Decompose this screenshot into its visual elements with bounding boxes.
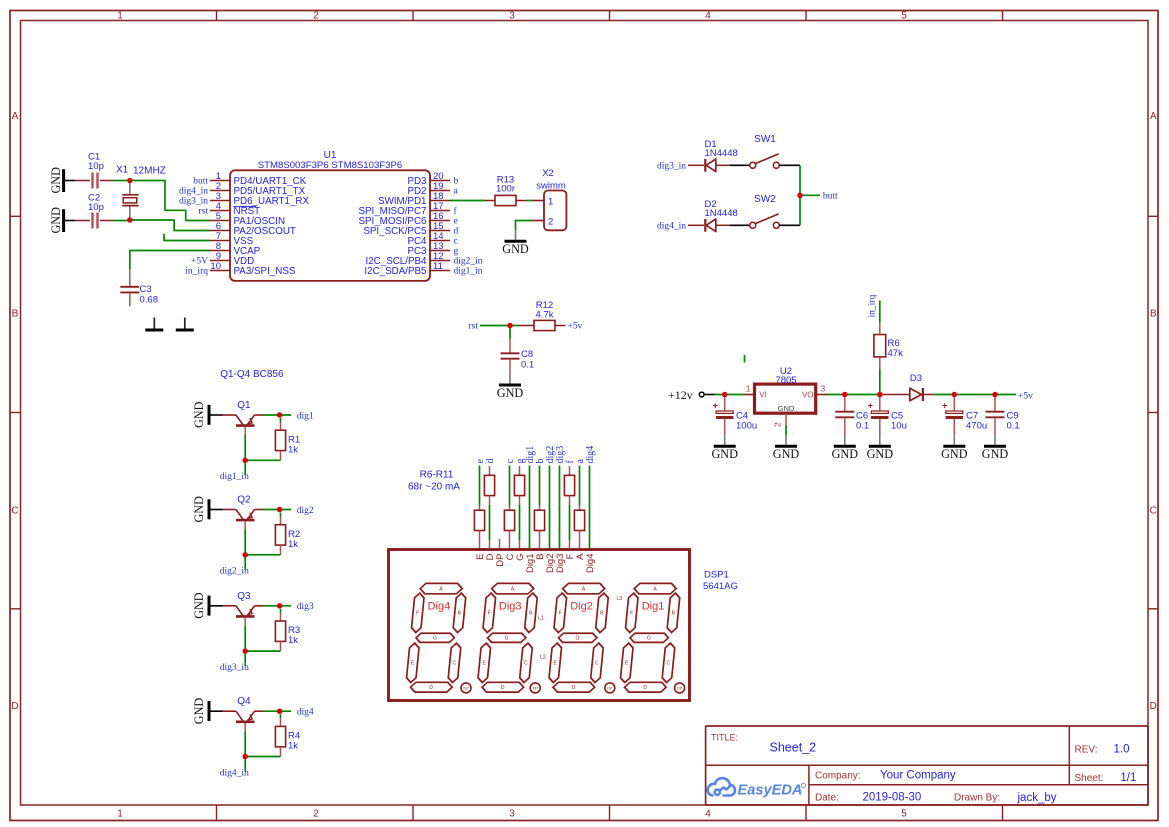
wire VO to junctions — [828, 394, 880, 396]
svg-text:DP: DP — [607, 687, 613, 691]
svg-text:dig2: dig2 — [297, 506, 314, 516]
svg-text:L2: L2 — [540, 655, 546, 661]
junction dig1_in node — [243, 458, 248, 463]
pin stub — [479, 540, 481, 551]
svg-text:G: G — [433, 636, 437, 642]
svg-text:470u: 470u — [966, 420, 987, 431]
ground symbol left floating — [145, 318, 163, 331]
diode D1 1N4448 — [688, 139, 738, 172]
wire +12v to junction — [704, 394, 714, 396]
svg-text:X1: X1 — [116, 165, 129, 176]
ground GND at Q4 — [192, 698, 222, 725]
svg-text:+5v: +5v — [568, 321, 583, 331]
svg-text:Drawn By:: Drawn By: — [954, 792, 1000, 803]
junction dig3 node — [277, 603, 282, 608]
svg-text:dig4_in: dig4_in — [657, 222, 686, 232]
svg-text:GND: GND — [773, 447, 800, 461]
svg-text:5: 5 — [901, 809, 907, 820]
svg-text:3: 3 — [509, 11, 515, 22]
svg-text:rst: rst — [199, 206, 209, 216]
svg-text:dig3_in: dig3_in — [179, 196, 208, 206]
svg-text:g: g — [454, 246, 459, 256]
junction dig4_in node — [243, 754, 248, 759]
svg-text:C: C — [595, 660, 599, 666]
svg-text:DP: DP — [533, 687, 539, 691]
junction X1 top — [127, 178, 132, 183]
svg-text:100u: 100u — [736, 420, 757, 431]
junction C9 node — [992, 392, 997, 397]
wire collector to node — [263, 509, 291, 511]
wire X2 pin2 to ground — [516, 221, 533, 231]
wire C2 to X1 — [114, 220, 130, 222]
svg-text:1: 1 — [746, 383, 751, 393]
svg-text:C: C — [667, 660, 671, 666]
svg-text:L3: L3 — [617, 596, 623, 602]
resistor c segment 68r — [504, 506, 514, 541]
svg-text:dig3: dig3 — [297, 602, 314, 612]
junction C4 node — [722, 392, 727, 397]
wire collector to node — [263, 710, 291, 712]
capacitor C7 — [942, 397, 987, 436]
svg-text:GND: GND — [778, 404, 795, 413]
resistor d segment 68r — [484, 466, 494, 505]
svg-text:dig3_in: dig3_in — [657, 162, 686, 172]
resistor R1 1k — [275, 418, 300, 460]
svg-text:rst: rst — [469, 321, 479, 331]
svg-text:GND: GND — [497, 386, 524, 400]
svg-text:dig1_in: dig1_in — [220, 472, 249, 482]
svg-text:dig4: dig4 — [585, 446, 596, 464]
wire node down — [244, 555, 246, 570]
svg-text:F: F — [488, 610, 491, 616]
crystal X1 12MHZ — [116, 165, 166, 218]
svg-text:5641AG: 5641AG — [703, 581, 738, 592]
wire D3 to +5v — [934, 394, 1016, 396]
wire C1 to X1 — [114, 180, 130, 182]
svg-text:2019-08-30: 2019-08-30 — [863, 791, 922, 803]
svg-text:4: 4 — [705, 809, 711, 820]
wire node to resistor bottom — [245, 554, 280, 556]
svg-text:2: 2 — [313, 11, 319, 22]
ground under C6 — [832, 435, 859, 461]
digit Dig2 segments — [548, 583, 610, 692]
svg-text:B: B — [12, 309, 19, 320]
transistor Q2 — [223, 495, 264, 530]
wire collector to node — [263, 414, 291, 416]
svg-text:0.1: 0.1 — [521, 359, 534, 370]
svg-text:GND: GND — [832, 447, 859, 461]
resistor a segment 68r — [574, 506, 584, 541]
Company field — [815, 769, 956, 781]
wire base to node — [244, 731, 246, 756]
pin stub — [579, 540, 581, 551]
svg-text:REV:: REV: — [1075, 744, 1098, 755]
svg-text:0.1: 0.1 — [1007, 420, 1020, 431]
resistor R6 47k — [874, 323, 903, 395]
wire U2 pin2 to ground — [785, 413, 787, 425]
ground GND at Q1 — [192, 401, 222, 428]
Sheet field — [1075, 772, 1137, 784]
digit Dig1 segments — [619, 583, 681, 692]
svg-text:SW2: SW2 — [754, 194, 776, 205]
IC U1 STM8S003F3P6 — [210, 150, 450, 281]
svg-text:SW1: SW1 — [754, 134, 776, 145]
svg-text:in_irq: in_irq — [868, 295, 878, 318]
wire base to node — [244, 626, 246, 651]
digit Dig3 segments — [477, 583, 539, 692]
capacitor C4 — [713, 397, 758, 436]
svg-text:Dig4: Dig4 — [585, 554, 596, 574]
svg-text:jack_by: jack_by — [1017, 792, 1057, 804]
svg-text:GND: GND — [192, 401, 206, 428]
ground under C9 — [982, 435, 1009, 461]
svg-text:0.1: 0.1 — [856, 420, 869, 431]
wire collector to node — [263, 605, 291, 607]
pin stub DP — [499, 539, 501, 551]
svg-text:Your Company: Your Company — [880, 769, 956, 781]
svg-text:3: 3 — [821, 383, 826, 393]
ground GND at Q2 — [192, 496, 222, 523]
svg-text:Sheet_2: Sheet_2 — [770, 741, 817, 755]
svg-text:1.0: 1.0 — [1114, 743, 1130, 755]
wire switch to butt node — [779, 164, 800, 166]
REV field — [1075, 743, 1130, 755]
svg-text:D: D — [643, 685, 647, 691]
svg-text:in_irq: in_irq — [185, 266, 208, 276]
resistor R2 1k — [275, 513, 300, 555]
resistor b segment 68r — [534, 506, 544, 541]
svg-text:GND: GND — [711, 447, 738, 461]
wire to U2 — [715, 394, 745, 396]
capacitor C9 — [986, 397, 1020, 436]
svg-text:GND: GND — [49, 167, 63, 194]
svg-text:X2: X2 — [542, 168, 554, 179]
wire segment column — [589, 466, 591, 551]
svg-text:C: C — [1150, 506, 1157, 517]
transistor Q4 — [223, 696, 264, 731]
connector X2 swimm — [532, 168, 566, 230]
svg-text:C8: C8 — [521, 349, 533, 360]
ground under C8 — [497, 374, 524, 400]
resistor e segment 68r — [474, 506, 484, 541]
svg-text:GND: GND — [867, 447, 894, 461]
svg-text:D: D — [501, 685, 505, 691]
resistor g segment 68r — [514, 466, 524, 505]
svg-text:GND: GND — [192, 496, 206, 523]
wire X1 top to U1 pin5 — [130, 181, 210, 221]
svg-text:GND: GND — [502, 242, 529, 256]
ground under X2 — [502, 230, 529, 256]
svg-text:dig2_in: dig2_in — [220, 567, 249, 577]
svg-text:dig1: dig1 — [297, 411, 314, 421]
svg-text:swimm: swimm — [536, 181, 566, 192]
svg-text:dig2_in: dig2_in — [454, 256, 483, 266]
wire diode to switch — [730, 224, 750, 226]
svg-text:STM8S003F3P6 STM8S103F3P6: STM8S003F3P6 STM8S103F3P6 — [258, 160, 403, 171]
svg-text:b: b — [454, 176, 459, 186]
svg-text:Q3: Q3 — [237, 591, 251, 602]
capacitor C8 — [501, 339, 535, 374]
junction C6 node — [842, 392, 847, 397]
svg-text:VO: VO — [802, 391, 814, 400]
wire — [579, 466, 581, 506]
junction dig2 node — [277, 507, 282, 512]
svg-text:dig3_in: dig3_in — [220, 663, 249, 673]
svg-text:Q1-Q4 BC856: Q1-Q4 BC856 — [220, 369, 284, 380]
resistor f segment 68r — [564, 466, 574, 505]
svg-text:+5v: +5v — [1018, 391, 1033, 401]
Date field — [815, 791, 1057, 804]
svg-text:+5V: +5V — [191, 256, 208, 266]
svg-text:D: D — [1150, 701, 1157, 712]
svg-text:Q4: Q4 — [237, 696, 251, 707]
svg-text:+12v: +12v — [668, 388, 693, 402]
junction dig3_in node — [243, 648, 248, 653]
svg-text:G: G — [647, 636, 651, 642]
wire — [479, 466, 481, 506]
svg-text:5: 5 — [901, 11, 907, 22]
wire node to resistor bottom — [245, 459, 280, 461]
svg-text:1k: 1k — [288, 741, 298, 752]
display DSP1 5641AG — [389, 550, 690, 701]
svg-text:A: A — [1150, 111, 1157, 122]
label R6-R11 68r — [408, 470, 460, 493]
wire diode to switch — [730, 164, 750, 166]
capacitor C3 — [120, 270, 158, 307]
junction butt — [797, 193, 802, 198]
svg-text:C: C — [11, 506, 18, 517]
transistor Q3 — [223, 591, 264, 626]
svg-text:1N4448: 1N4448 — [705, 208, 738, 219]
green stub near U2 — [744, 355, 746, 363]
ground under C7 — [941, 435, 968, 461]
ground under C4 — [711, 435, 738, 461]
svg-text:DSP1: DSP1 — [704, 570, 729, 581]
svg-text:B: B — [1150, 309, 1157, 320]
svg-text:F: F — [630, 610, 633, 616]
wire X1 bottom to U1 pin6 — [130, 220, 210, 231]
pin stub — [569, 540, 571, 551]
pin stub — [539, 540, 541, 551]
EasyEDA logo — [708, 778, 806, 798]
svg-text:butt: butt — [193, 176, 208, 186]
svg-text:C: C — [524, 660, 528, 666]
junction dig2_in node — [243, 552, 248, 557]
port +12v — [668, 388, 704, 402]
svg-text:4: 4 — [705, 11, 711, 22]
svg-text:4.7k: 4.7k — [536, 309, 554, 320]
wire R6 to in_irq — [879, 301, 881, 323]
svg-text:3: 3 — [509, 809, 515, 820]
wire VCAP to C3 — [130, 251, 210, 270]
svg-text:c: c — [454, 236, 458, 246]
svg-text:VI: VI — [759, 391, 767, 400]
svg-text:D3: D3 — [910, 373, 922, 384]
svg-text:2: 2 — [773, 422, 783, 427]
svg-text:Dig4: Dig4 — [428, 601, 451, 613]
wire switch to butt node — [779, 224, 800, 226]
capacitor C5 — [868, 397, 907, 436]
svg-text:2: 2 — [313, 809, 319, 820]
svg-text:7805: 7805 — [775, 375, 796, 386]
svg-text:PA3/SPI_NSS: PA3/SPI_NSS — [234, 266, 296, 277]
regulator U2 7805 — [744, 366, 828, 427]
wire base to node — [244, 435, 246, 460]
svg-text:dig4: dig4 — [297, 708, 314, 718]
svg-text:Dig1: Dig1 — [642, 601, 665, 613]
wire rst to junction — [480, 325, 519, 327]
wire node down — [244, 460, 246, 475]
svg-text:Q1: Q1 — [237, 400, 251, 411]
svg-text:DP: DP — [677, 687, 683, 691]
svg-text:10p: 10p — [88, 161, 104, 172]
transistor Q1 — [223, 400, 264, 435]
wire junction to D3 — [880, 394, 910, 396]
svg-text:G: G — [576, 636, 580, 642]
wire node down — [244, 651, 246, 666]
svg-text:+: + — [713, 401, 718, 411]
capacitor C2 — [75, 193, 115, 229]
pin stub — [489, 540, 491, 551]
pin stub — [509, 540, 511, 551]
wire — [509, 466, 511, 506]
svg-text:0.68: 0.68 — [140, 295, 159, 306]
junction C7 node — [952, 392, 957, 397]
pin stub — [519, 540, 521, 551]
svg-text:G: G — [505, 636, 509, 642]
wire segment column — [549, 466, 551, 551]
svg-text:D: D — [572, 685, 576, 691]
svg-text:GND: GND — [982, 447, 1009, 461]
svg-text:10p: 10p — [88, 202, 104, 213]
label DSP1 — [703, 570, 738, 593]
svg-text:GND: GND — [49, 207, 63, 234]
svg-text:d: d — [485, 459, 496, 464]
wire — [569, 505, 571, 540]
svg-text:dig4_in: dig4_in — [179, 186, 208, 196]
svg-text:EasyEDA: EasyEDA — [738, 783, 803, 799]
svg-text:Q2: Q2 — [237, 495, 251, 506]
svg-text:A: A — [12, 111, 19, 122]
svg-text:dig4_in: dig4_in — [220, 768, 249, 778]
svg-text:D: D — [11, 701, 18, 712]
wire U1 pin18 to R13 — [450, 200, 485, 202]
wire — [539, 466, 541, 506]
svg-text:GND: GND — [192, 698, 206, 725]
svg-text:1k: 1k — [288, 444, 298, 455]
ground GND at Q3 — [192, 592, 222, 619]
ground under C5 — [867, 435, 894, 461]
junction dig1 node — [277, 412, 282, 417]
junction X1 bottom — [127, 217, 132, 222]
wire node to resistor bottom — [245, 650, 280, 652]
svg-text:Company:: Company: — [815, 770, 861, 781]
svg-text:1N4448: 1N4448 — [705, 148, 738, 159]
wire segment column — [559, 466, 561, 551]
svg-text:+: + — [942, 401, 947, 411]
svg-text:+: + — [868, 401, 873, 411]
svg-text:butt: butt — [823, 191, 838, 201]
wire junction to C8 — [509, 326, 511, 340]
diode D3 — [910, 373, 934, 401]
resistor R3 1k — [275, 609, 300, 651]
wire butt vertical — [799, 165, 801, 225]
wire — [519, 505, 521, 540]
junction C5 R6 node — [877, 392, 882, 397]
svg-text:F: F — [559, 610, 562, 616]
switch SW1 — [750, 134, 780, 168]
svg-text:68r ~20 mA: 68r ~20 mA — [408, 482, 460, 493]
svg-text:1: 1 — [548, 196, 553, 207]
svg-text:100r: 100r — [496, 184, 515, 195]
junction rst node — [507, 323, 512, 328]
svg-text:d: d — [454, 226, 459, 236]
svg-text:11: 11 — [433, 261, 443, 272]
resistor R12 — [519, 300, 566, 331]
svg-text:Dig2: Dig2 — [570, 601, 593, 613]
svg-text:GND: GND — [941, 447, 968, 461]
svg-text:10u: 10u — [891, 420, 907, 431]
svg-text:F: F — [416, 610, 419, 616]
ground GND at C1 — [49, 167, 74, 194]
svg-text:DP: DP — [464, 687, 470, 691]
svg-text:47k: 47k — [888, 348, 904, 359]
wire segment column — [529, 466, 531, 551]
wire node to resistor bottom — [245, 756, 280, 758]
diode D2 1N4448 — [688, 199, 738, 232]
wire node down — [244, 757, 246, 772]
svg-text:dig1_in: dig1_in — [454, 266, 483, 276]
title block — [706, 726, 1148, 805]
svg-text:GND: GND — [192, 592, 206, 619]
svg-text:C3: C3 — [140, 284, 152, 295]
svg-text:12MHZ: 12MHZ — [133, 166, 166, 177]
svg-text:D: D — [429, 685, 433, 691]
svg-text:1k: 1k — [288, 635, 298, 646]
capacitor C6 — [835, 397, 869, 436]
svg-text:C: C — [453, 660, 457, 666]
wire VSS stub — [164, 234, 210, 241]
svg-text:Date:: Date: — [815, 792, 839, 803]
ground under U2 — [773, 435, 800, 461]
wire R13 to X2 — [527, 200, 533, 202]
wire butt stub — [800, 194, 820, 196]
svg-text:2: 2 — [548, 216, 553, 227]
svg-text:L1: L1 — [538, 616, 544, 622]
svg-text:e: e — [454, 216, 458, 226]
wire — [489, 505, 491, 540]
svg-text:I2C_SDA/PB5: I2C_SDA/PB5 — [364, 266, 427, 277]
svg-text:Dig3: Dig3 — [499, 601, 522, 613]
digit Dig4 segments — [405, 583, 467, 692]
capacitor C1 — [75, 152, 115, 189]
resistor R4 1k — [275, 714, 300, 756]
svg-text:1: 1 — [117, 809, 123, 820]
svg-text:R6-R11: R6-R11 — [420, 470, 454, 481]
svg-text:Sheet:: Sheet: — [1075, 773, 1104, 784]
resistor R13 — [485, 174, 527, 205]
switch SW2 — [750, 194, 780, 228]
svg-text:1k: 1k — [288, 539, 298, 550]
ground symbol right floating — [176, 318, 194, 331]
ground GND at C2 — [49, 207, 74, 234]
svg-text:1/1: 1/1 — [1120, 772, 1136, 784]
svg-text:10: 10 — [210, 261, 221, 272]
wire base to node — [244, 530, 246, 555]
junction dig4 node — [277, 709, 282, 714]
svg-text:TITLE:: TITLE: — [711, 733, 738, 743]
svg-text:1: 1 — [117, 11, 123, 22]
